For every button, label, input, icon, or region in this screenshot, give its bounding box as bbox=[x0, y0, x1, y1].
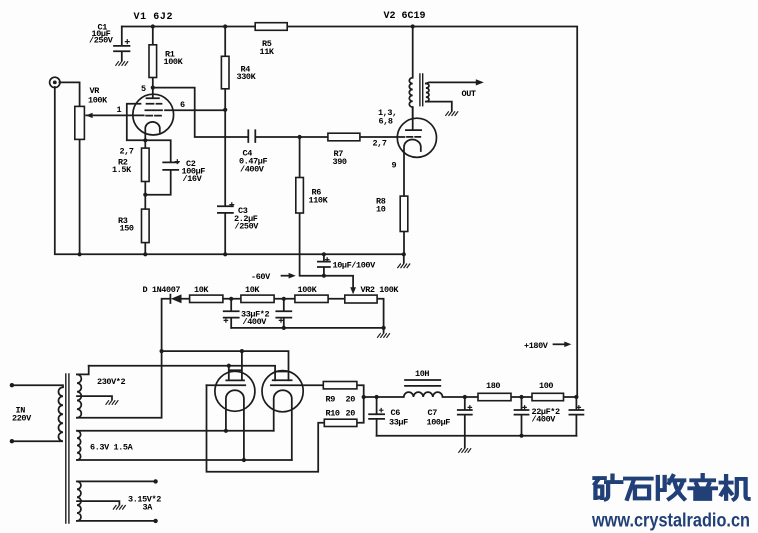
svg-text:10: 10 bbox=[376, 205, 386, 215]
svg-text:110K: 110K bbox=[309, 196, 329, 206]
svg-text:VR: VR bbox=[90, 86, 101, 96]
svg-text:100K: 100K bbox=[88, 96, 108, 106]
svg-text:20: 20 bbox=[346, 409, 356, 419]
svg-text:R10: R10 bbox=[326, 409, 340, 419]
svg-text:D 1N4007: D 1N4007 bbox=[143, 285, 181, 295]
svg-text:100: 100 bbox=[539, 381, 553, 391]
svg-text:6: 6 bbox=[180, 100, 185, 110]
svg-text:150: 150 bbox=[120, 224, 134, 234]
svg-text:10K: 10K bbox=[194, 285, 209, 295]
svg-text:C6: C6 bbox=[391, 408, 401, 418]
svg-text:/400V: /400V bbox=[240, 165, 265, 175]
svg-text:9: 9 bbox=[392, 161, 397, 171]
svg-text:220V: 220V bbox=[12, 414, 32, 424]
svg-text:100K: 100K bbox=[164, 57, 184, 67]
svg-text:2,7: 2,7 bbox=[373, 139, 387, 149]
svg-text:390: 390 bbox=[333, 157, 347, 167]
svg-text:V2 6C19: V2 6C19 bbox=[384, 11, 426, 22]
svg-text:V1 6J2: V1 6J2 bbox=[134, 12, 174, 23]
svg-text:/400V: /400V bbox=[243, 317, 268, 327]
svg-text:11K: 11K bbox=[260, 47, 275, 57]
svg-text:100K: 100K bbox=[298, 285, 318, 295]
svg-text:180: 180 bbox=[486, 381, 500, 391]
svg-text:+180V: +180V bbox=[524, 341, 549, 351]
svg-text:10µF/100V: 10µF/100V bbox=[333, 261, 377, 271]
svg-text:C7: C7 bbox=[428, 408, 438, 418]
svg-text:1.5K: 1.5K bbox=[112, 165, 132, 175]
svg-text:20: 20 bbox=[346, 395, 356, 405]
svg-text:/250V: /250V bbox=[235, 222, 260, 232]
svg-text:www.crystalradio.cn: www.crystalradio.cn bbox=[591, 511, 750, 532]
svg-text:VR2 100K: VR2 100K bbox=[361, 285, 400, 295]
svg-text:/250V: /250V bbox=[89, 36, 114, 46]
svg-text:330K: 330K bbox=[237, 72, 257, 82]
svg-text:/16V: /16V bbox=[183, 174, 203, 184]
svg-text:230V*2: 230V*2 bbox=[97, 377, 126, 387]
svg-text:OUT: OUT bbox=[462, 89, 476, 99]
svg-text:3A: 3A bbox=[143, 503, 154, 513]
svg-text:100µF: 100µF bbox=[427, 418, 451, 428]
svg-text:R9: R9 bbox=[326, 395, 336, 405]
svg-text:5: 5 bbox=[141, 84, 146, 94]
svg-text:-60V: -60V bbox=[251, 272, 271, 282]
svg-text:10H: 10H bbox=[415, 369, 429, 379]
svg-text:10K: 10K bbox=[245, 285, 260, 295]
svg-text:6.3V 1.5A: 6.3V 1.5A bbox=[90, 443, 134, 453]
svg-text:/400V: /400V bbox=[532, 415, 557, 425]
svg-text:33µF: 33µF bbox=[389, 418, 408, 428]
svg-text:2,7: 2,7 bbox=[120, 147, 134, 157]
svg-text:1: 1 bbox=[117, 105, 122, 115]
svg-text:6,8: 6,8 bbox=[379, 117, 393, 127]
